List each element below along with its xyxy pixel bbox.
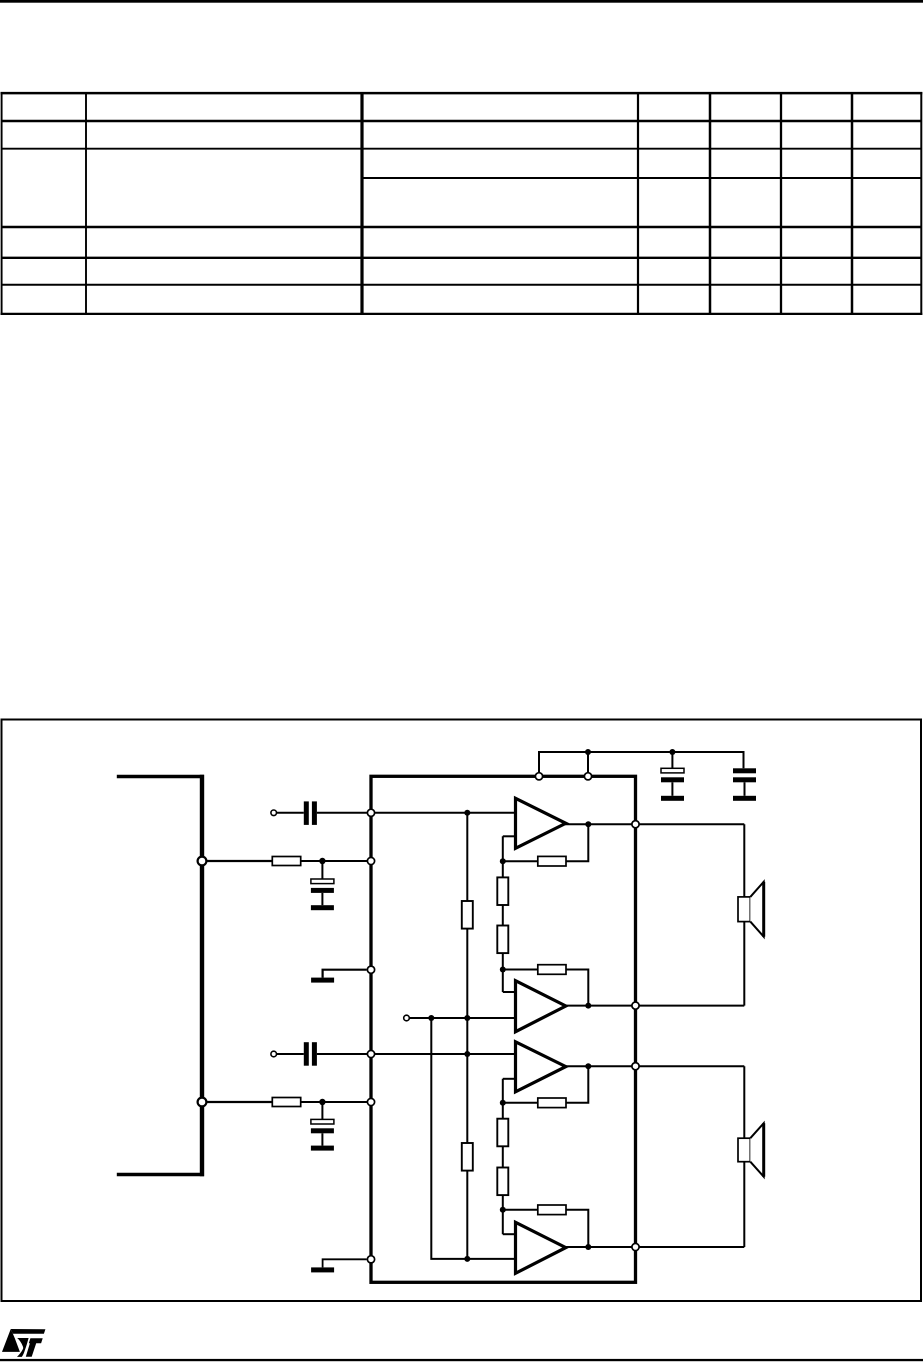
op-amp 1 output wire: [563, 823, 744, 825]
op-amp U1D: [516, 1222, 566, 1273]
capacitor C6 (input 2 filter): [311, 1102, 334, 1146]
page bottom rule: [0, 1359, 923, 1361]
IC U1 outline: [371, 776, 636, 1282]
ground for C2: [733, 796, 756, 801]
source node 1: [198, 857, 207, 866]
speaker 2 wires: [743, 1066, 745, 1247]
wire gnd pin lower: [323, 1259, 367, 1267]
junction op1 output: [585, 821, 591, 827]
op-amp U1B: [516, 981, 566, 1032]
pin VS2: [584, 773, 591, 780]
supply rail wire: [539, 752, 744, 774]
junction R4 top: [464, 1051, 470, 1057]
op-amp2 inverting jog: [503, 991, 516, 993]
junction op4 output: [585, 1244, 591, 1250]
resistor R7 (op3 gain): [497, 1119, 508, 1147]
feedback chain wire lower: [502, 1079, 504, 1234]
junction R1/C4: [319, 858, 325, 864]
op-amp 4 output wire: [563, 1246, 744, 1248]
junction op2 fb node: [500, 967, 506, 973]
wire R2 to pin: [301, 1101, 371, 1103]
wire IN1 pin to op-amp 1: [371, 812, 516, 814]
page top rule: [0, 0, 923, 3]
op-amp3 inverting jog: [503, 1078, 516, 1080]
resistor R1: [272, 857, 300, 866]
resistor R9 (op1 feedback): [538, 856, 566, 866]
wire R1 to pin: [301, 860, 371, 862]
pin OUT4: [632, 1243, 639, 1250]
pin VS1: [535, 773, 542, 780]
ground for C6: [311, 1146, 334, 1151]
op-amp4 inverting jog: [503, 1233, 516, 1235]
junction R3 bottom: [464, 1015, 470, 1021]
resistor R6 (op2 gain): [497, 926, 508, 954]
wire C3 to pin: [317, 812, 371, 814]
junction R3 top: [464, 810, 470, 816]
wire node to resistor R1: [207, 860, 273, 862]
input 2 terminal: [271, 1051, 277, 1057]
resistor R2: [272, 1098, 300, 1107]
pin GND2: [367, 1256, 374, 1263]
resistor R10 (op2 feedback): [538, 965, 566, 975]
junction op4 fb node: [500, 1207, 506, 1213]
wire C5 to pin: [317, 1053, 371, 1055]
pin OUT1: [632, 821, 639, 828]
feedback resistor R9 wires: [503, 824, 589, 861]
ground for C4: [311, 905, 334, 910]
pin IN2: [367, 1050, 374, 1057]
ground upper-left: [311, 978, 334, 983]
wire node to resistor R2: [207, 1101, 273, 1103]
resistor R12 (op4 feedback): [538, 1205, 566, 1215]
feedback resistor R11 wires: [503, 1066, 589, 1103]
resistor R8 (op4 gain): [497, 1168, 508, 1196]
source node 2: [198, 1098, 207, 1107]
input 2 wire: [277, 1053, 304, 1055]
bias divider wire lower: [466, 1054, 468, 1259]
junction op2 output: [585, 1003, 591, 1009]
junction op3 fb node: [500, 1100, 506, 1106]
input 1 terminal: [271, 810, 277, 816]
capacitor C4 (input 1 filter): [311, 861, 334, 905]
junction op4 input node: [464, 1256, 470, 1262]
junction st-by node: [428, 1015, 434, 1021]
resistor R3 (bias upper): [462, 901, 473, 929]
junction R2/C6: [319, 1099, 325, 1105]
wire gnd pin upper: [323, 970, 367, 978]
op-amp 2 output wire: [563, 1005, 744, 1007]
junction op3 output: [585, 1063, 591, 1069]
source bracket bottom wire: [117, 1173, 204, 1177]
capacitor C5 (input 2 coupling): [304, 1042, 317, 1066]
pin OUT3: [632, 1063, 639, 1070]
ground for C1: [661, 796, 684, 801]
feedback resistor R10 wires: [503, 970, 589, 1006]
wire IN2 pin to op-amp 3: [371, 1053, 516, 1055]
capacitor C1 (electrolytic to ground): [661, 752, 684, 796]
table row lines: [1, 121, 922, 285]
op-amp 3 output wire: [563, 1065, 744, 1067]
st-by terminal wire: [410, 1017, 516, 1019]
table column dividers: [86, 93, 852, 314]
capacitor C2 (ceramic to ground): [733, 768, 756, 796]
junction op1 fb node: [500, 858, 506, 864]
capacitor C3 (input 1 coupling): [304, 801, 317, 825]
resistor R4 (bias lower): [462, 1143, 473, 1171]
speaker 1 wires: [743, 824, 745, 1005]
figure frame: [2, 720, 922, 1302]
ground lower-left: [311, 1267, 334, 1272]
op-amp1 inverting jog: [503, 835, 516, 837]
pin 5: [367, 1098, 374, 1105]
source bracket top wire: [117, 775, 204, 779]
resistor R11 (op3 feedback): [538, 1098, 566, 1108]
resistor R5 (op1 gain): [497, 877, 508, 905]
feedback chain wire upper: [502, 836, 504, 992]
pin OUT2: [632, 1002, 639, 1009]
input 1 wire: [277, 812, 304, 814]
junction supply cap C1: [669, 749, 675, 755]
pin IN1: [367, 809, 374, 816]
speaker LS2: [738, 1123, 764, 1177]
op-amp U1C: [516, 1042, 566, 1092]
wire st-by down to op-amp 4 input: [431, 1018, 515, 1259]
feedback resistor R12 wires: [503, 1210, 589, 1247]
st-by terminal: [404, 1015, 410, 1021]
ST logo: [2, 1329, 45, 1357]
pin 2: [367, 857, 374, 864]
pin GND1: [367, 966, 374, 973]
junction on supply rail: [585, 749, 591, 755]
source bracket vertical wire: [200, 775, 204, 1177]
speaker LS1: [738, 882, 764, 937]
op-amp U1A: [516, 798, 566, 848]
bias divider wire upper: [466, 813, 468, 1054]
table outer border: [1, 92, 923, 315]
